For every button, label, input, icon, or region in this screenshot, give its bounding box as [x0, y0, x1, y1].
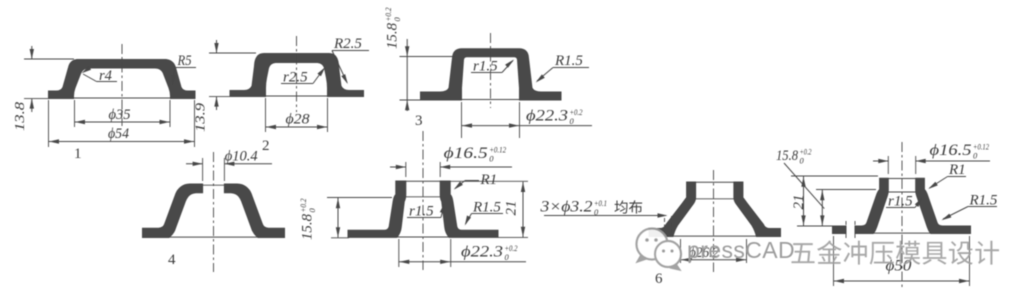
dimension phi16.5 +0.12/0 (neck bore) of part 7: [887, 156, 889, 174]
label r2.5 with leader of part 2: [281, 83, 313, 85]
svg-text:15.8: 15.8: [385, 23, 401, 49]
part 6 cross-section profile left half: [649, 182, 696, 237]
dimension 15.8 +0.2/0 (height) of part 3: [406, 39, 408, 111]
part 2 centerline: [296, 36, 298, 112]
part 6 centerline: [713, 170, 715, 272]
dimension 21 (total height) of part 5: [450, 180, 528, 182]
label R1.5 with leader of part 7: [968, 206, 997, 208]
part 6 bottom far rim edge line: [673, 235, 757, 237]
part 5 cross-section profile right half: [440, 181, 498, 237]
dimension phi28 of part 2: [265, 98, 267, 132]
svg-text:6: 6: [655, 271, 663, 287]
part 6 neck rim top edge line: [687, 181, 743, 183]
part 6 cross-section profile right half: [734, 182, 781, 237]
svg-text:r2.5: r2.5: [283, 70, 308, 86]
dimension phi16.5 +0.12/0 (neck bore) of part 5: [405, 162, 407, 177]
part 7 cross-section profile right half: [916, 178, 971, 233]
svg-text:R5: R5: [177, 53, 192, 69]
label R5 with leader of part 1: [175, 67, 196, 69]
part 1 cross-section profile: [49, 60, 196, 99]
label r1.5 with leader of part 3: [471, 72, 502, 74]
svg-text:ϕ16.5: ϕ16.5: [444, 145, 488, 162]
dimension 21 of part 7: [791, 175, 878, 177]
part 4 hole far edge line: [203, 184, 225, 186]
svg-text:ϕ50: ϕ50: [886, 258, 912, 275]
part 6 hidden hole edge lines on wall: [664, 218, 666, 234]
part 5 centerline: [422, 131, 424, 270]
svg-text:R1: R1: [480, 172, 498, 188]
part 7 cross-section profile left flange tip piece (before hole): [833, 226, 847, 234]
svg-text:2: 2: [262, 138, 270, 154]
part 4 bottom far rim edge line: [168, 236, 259, 238]
dimension phi22.3 +0.2/0 (cup bore) of part 5: [398, 239, 400, 267]
svg-text:pressCAD: pressCAD: [687, 237, 795, 263]
dimension 13.8 (height) of part 1: [31, 46, 33, 59]
svg-text:ϕ28: ϕ28: [286, 112, 311, 128]
svg-text:ϕ35: ϕ35: [109, 107, 131, 123]
svg-text:R2.5: R2.5: [333, 36, 362, 52]
svg-text:3: 3: [415, 113, 423, 129]
part 3 cross-section profile: [421, 49, 562, 100]
dimension 15.8 +0.2/0 (cup height) of part 5: [327, 197, 392, 199]
svg-text:ϕ16.5: ϕ16.5: [930, 142, 972, 159]
svg-text:1: 1: [74, 146, 82, 162]
svg-text:15.8: 15.8: [300, 214, 316, 240]
part 4 cross-section profile left half: [143, 184, 203, 238]
part 7 centerline: [901, 142, 903, 290]
part 4 centerline: [213, 152, 215, 272]
label R1.5 with leader of part 3: [553, 67, 589, 69]
svg-text:r1.5: r1.5: [888, 194, 913, 210]
part 5 cross-section profile left half: [348, 181, 406, 237]
annotation 3x phi3.2 +0.1/0 evenly-spaced holes with leader: [544, 215, 666, 217]
svg-text:0: 0: [489, 154, 494, 164]
label R1.5 with leader of part 5: [472, 213, 504, 215]
svg-text:21: 21: [791, 195, 807, 210]
svg-text:21: 21: [504, 201, 520, 216]
dimension phi22.3 +0.2/0 of part 3: [461, 102, 463, 138]
part 4 cross-section profile right half: [224, 184, 284, 238]
part 7 flange hole hidden edge lines: [845, 221, 847, 239]
dimension phi10.4 (top hole) of part 4: [202, 158, 204, 181]
dimension phi54 of part 1: [48, 100, 50, 147]
svg-text:4: 4: [168, 252, 176, 268]
part 7 cross-section profile left half: [855, 178, 888, 233]
svg-text:r1.5: r1.5: [409, 204, 434, 220]
part 1 centerline: [121, 44, 123, 126]
label r1.5 with leader of part 5: [407, 217, 441, 219]
part 7 neck interior shelf line: [888, 191, 915, 193]
part 5 neck rim top edge line: [396, 180, 450, 182]
svg-text:13.9: 13.9: [194, 103, 209, 132]
part 2 far rim edge line: [266, 95, 328, 97]
svg-text:ϕ22.3: ϕ22.3: [461, 244, 503, 261]
part 3 far rim edge line: [462, 99, 520, 101]
svg-text:R1.5: R1.5: [554, 53, 583, 69]
label r4 with leader of part 1: [97, 81, 118, 83]
part 7 bottom far rim edge line: [874, 232, 930, 234]
part 1 far rim edge line: [74, 97, 171, 99]
svg-text:r1.5: r1.5: [473, 59, 498, 75]
svg-text:13.8: 13.8: [13, 102, 28, 131]
svg-text:3×ϕ3.2: 3×ϕ3.2: [539, 199, 592, 216]
watermark logo chat bubbles: [637, 229, 682, 271]
part 2 cross-section profile: [230, 54, 364, 97]
svg-text:ϕ22.3: ϕ22.3: [526, 108, 568, 125]
label R1 with leader of part 7: [948, 176, 967, 178]
part 3 centerline: [490, 33, 492, 108]
part 5 neck interior shelf line: [406, 196, 440, 198]
dimension phi35 of part 1: [74, 100, 76, 127]
svg-text:R1.5: R1.5: [472, 200, 501, 216]
dimension 13.9 (height) of part 2: [216, 40, 218, 53]
label r1.5 with leader of part 7: [886, 207, 915, 209]
part 7 neck rim top edge line: [880, 178, 925, 180]
label R1 with leader of part 5: [465, 180, 479, 182]
svg-text:ϕ10.4: ϕ10.4: [225, 149, 258, 165]
svg-text:ϕ54: ϕ54: [108, 126, 129, 142]
dimension phi50 (flange) of part 7: [833, 236, 835, 286]
part 6 neck interior shelf line: [696, 198, 734, 200]
svg-text:R1.5: R1.5: [969, 193, 998, 209]
label R2.5 with leader of part 2: [332, 50, 369, 52]
svg-text:R1: R1: [948, 162, 966, 178]
dimension phi26.2 of part 6 (mostly hidden by watermark): [680, 239, 682, 263]
svg-text:15.8: 15.8: [776, 148, 798, 164]
watermark text (Chinese) wujin chongya muju sheji: [791, 240, 999, 264]
dimension 15.8 +0.2/0 of part 7 with leader: [776, 147, 812, 166]
svg-text:r4: r4: [99, 68, 112, 84]
part 5 bottom far rim edge line: [397, 236, 449, 238]
